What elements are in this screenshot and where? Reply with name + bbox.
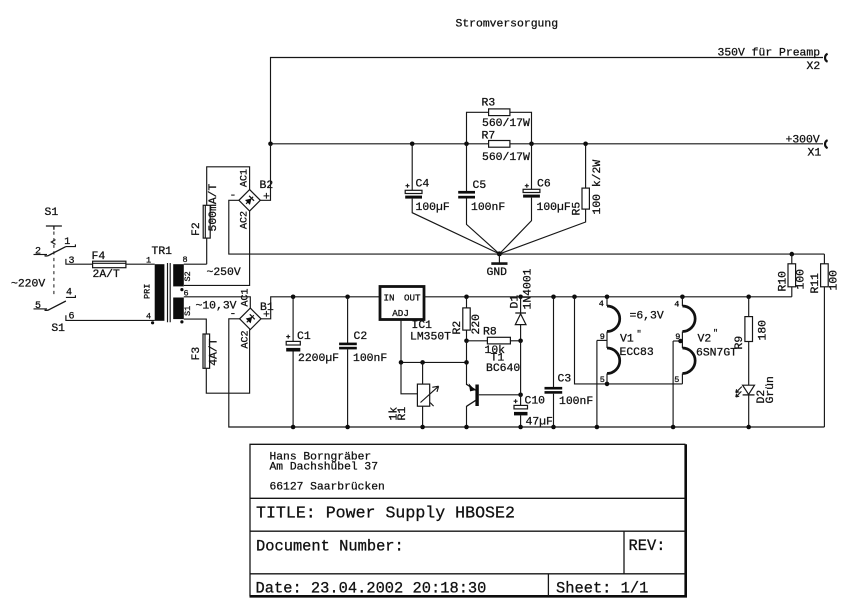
svg-text:100nF: 100nF (559, 396, 593, 408)
wire D1 anode lead (520, 325, 522, 341)
B1 diamond body (240, 308, 261, 329)
junction D1/R8 node (518, 339, 523, 344)
wire C4 bottom lead to GND (412, 199, 499, 254)
wire base node up to R8/D1 node (520, 341, 522, 395)
rectifier bridge B1 (230, 288, 274, 348)
transformer TR1 (143, 246, 251, 334)
transistor T1 BC640 (464, 341, 523, 430)
F2 body (203, 205, 210, 238)
svg-text:Document Number:: Document Number: (256, 537, 404, 555)
resistor R2 (452, 295, 483, 365)
capacitor C6 (499, 144, 570, 254)
resistor R11 (810, 254, 841, 427)
C10 negative plate (514, 412, 528, 416)
svg-text:ECC83: ECC83 (620, 347, 654, 359)
tube heater V2 6SN7GT (671, 295, 737, 430)
svg-text:C5: C5 (473, 180, 487, 192)
svg-text:4: 4 (599, 299, 604, 309)
svg-text:S1: S1 (183, 306, 193, 316)
S1 lower blade (45, 301, 66, 310)
node X2 connector (825, 54, 828, 62)
wire R3 right lead (510, 112, 532, 144)
V1 pin 4 stub (606, 297, 608, 306)
svg-text:ADJ: ADJ (392, 308, 409, 319)
svg-text:Grün: Grün (765, 376, 777, 403)
svg-text:IC1: IC1 (412, 320, 433, 332)
R1 body (417, 384, 429, 406)
capacitor C4 (405, 144, 499, 254)
svg-text:V1: V1 (620, 334, 634, 346)
C4 + mark (406, 184, 410, 188)
svg-text:5: 5 (35, 301, 41, 312)
svg-text:AC2: AC2 (241, 330, 252, 348)
T1 collector diagonal (467, 400, 477, 406)
ground symbol GND (487, 251, 508, 278)
wire C10 top lead (520, 395, 522, 406)
junction C4 top (410, 142, 415, 147)
svg-text:~220V: ~220V (11, 279, 45, 291)
R1 lower tick (430, 403, 433, 407)
C4 negative plate (405, 196, 422, 199)
junction V2 tap bottom (671, 425, 676, 430)
svg-text:560/17W: 560/17W (482, 152, 530, 164)
D2 triangle (743, 385, 755, 394)
R9 body (745, 317, 753, 342)
R5 body (582, 188, 589, 209)
junction ADJ/emitter node (464, 360, 469, 365)
junction heater rail feed (572, 295, 577, 300)
S1 pin 1 lead (66, 244, 76, 246)
svg-text:180: 180 (758, 320, 770, 341)
wire: B1 minus to bottom rail (229, 319, 825, 427)
junction D1 top (518, 295, 523, 300)
svg-text:1: 1 (64, 237, 70, 248)
svg-text:100µF: 100µF (537, 202, 571, 214)
wire F3 bottom to B1 AC2 (206, 330, 249, 394)
junction C3 bottom (551, 425, 556, 430)
svg-text:220: 220 (471, 314, 483, 335)
svg-text:Date: 23.04.2002 20:18:30: Date: 23.04.2002 20:18:30 (256, 580, 487, 598)
svg-text:IN: IN (384, 292, 395, 303)
junction ADJ node (399, 360, 404, 365)
TR1 primary polarity dot (151, 321, 154, 324)
svg-text:S2: S2 (183, 271, 193, 281)
R7 body (489, 141, 510, 148)
svg-text:S1: S1 (45, 323, 66, 335)
F3 inner line (204, 334, 206, 368)
svg-text:R9: R9 (734, 336, 746, 350)
TR1 S2 polarity dot (180, 288, 183, 291)
R8 body (487, 337, 510, 344)
S1 detent mark (51, 240, 55, 245)
T1 emitter arrow (469, 383, 475, 391)
junction C1 top (291, 295, 296, 300)
svg-text:100nF: 100nF (353, 353, 387, 365)
svg-text:1N4001: 1N4001 (523, 268, 535, 309)
potentiometer R1 (389, 360, 439, 429)
C1 positive plate (286, 341, 300, 345)
wire: GND rail (0V reference) (229, 200, 825, 254)
svg-text:4: 4 (66, 288, 72, 299)
V2 pin 9 stub (673, 340, 682, 342)
R10 body (788, 264, 796, 287)
svg-text:PRI: PRI (143, 284, 153, 299)
junction R2 top (464, 295, 469, 300)
svg-text:R1: R1 (397, 407, 409, 421)
svg-text:R7: R7 (482, 130, 496, 142)
wire C4 top lead (411, 144, 413, 191)
junction on +300V rail at B2 output (268, 142, 273, 147)
wire T1 emitter lead (466, 362, 468, 385)
tube heater V1 ECC83 (595, 295, 654, 430)
wire C5 top lead (466, 144, 468, 191)
R11 body (821, 264, 829, 287)
svg-text:47µF: 47µF (526, 417, 554, 429)
svg-text:B2: B2 (260, 180, 274, 192)
svg-text:V2: V2 (698, 334, 712, 346)
resistor R7 (482, 130, 531, 164)
junction R1 top (420, 360, 425, 365)
V2 heater arc top (682, 306, 695, 332)
junction R3/R7/C5 left node (464, 142, 469, 147)
svg-text:100: 100 (829, 270, 841, 291)
C6 positive plate (523, 189, 540, 192)
divider sheet cell (547, 574, 549, 597)
S1 actuator bar (46, 226, 62, 230)
svg-text:R11: R11 (810, 273, 822, 294)
svg-text:6: 6 (69, 312, 75, 323)
svg-text:2A/T: 2A/T (93, 269, 121, 281)
resistor R10 (778, 252, 808, 297)
svg-text:+: + (263, 310, 270, 322)
svg-text:-: - (230, 190, 237, 202)
svg-text:4A/T: 4A/T (209, 338, 221, 366)
svg-text:100nF: 100nF (471, 202, 505, 214)
wire: B2 AC1 loop to F2 top (207, 167, 250, 206)
svg-text:3: 3 (69, 256, 75, 267)
TR1 secondary S2 winding bar (173, 264, 184, 286)
svg-text:9: 9 (675, 332, 680, 342)
C4 positive plate (405, 190, 422, 193)
wire: ADJ node horizontal (401, 361, 467, 363)
V1 pin 9 stub (597, 339, 607, 341)
C3 plate top (545, 387, 563, 390)
C6 negative plate (523, 195, 540, 198)
wire: ADJ to R1 wiper (401, 362, 417, 393)
fuse F4 (92, 251, 155, 281)
wire R10 bottom lead (791, 287, 793, 297)
C5 plate top (458, 191, 475, 194)
C1 + mark (286, 335, 290, 339)
D2 cathode bar (743, 394, 755, 396)
wire D2 bottom lead (748, 395, 750, 427)
wire F4 right lead (126, 263, 155, 265)
svg-text:9: 9 (600, 332, 605, 342)
junction R10 top on GND rail (790, 252, 795, 257)
svg-text:TITLE: Power Supply HBOSE2: TITLE: Power Supply HBOSE2 (256, 504, 515, 523)
svg-text:8: 8 (183, 255, 188, 265)
junction R9 top (746, 295, 751, 300)
junction C2 top (345, 295, 350, 300)
S1 pin 2 lead (34, 254, 48, 256)
svg-text:100 k/2W: 100 k/2W (592, 160, 604, 215)
svg-text:F3: F3 (191, 347, 203, 361)
resistor R8 (467, 327, 521, 357)
V1 heater mid line (606, 332, 608, 349)
wire R9 top lead (748, 297, 750, 317)
V2 pin 5 stub (681, 374, 683, 384)
capacitor C5 (458, 144, 505, 254)
wire: IC1 OUT to heater rail (424, 296, 792, 298)
C5 plate bottom (458, 196, 475, 199)
wire C1 bottom lead (292, 352, 294, 428)
svg-text:REV:: REV: (629, 537, 666, 555)
svg-text:560/17W: 560/17W (482, 118, 530, 130)
svg-text:LM350T: LM350T (410, 331, 451, 343)
LED D2 (736, 376, 777, 429)
wire C3 bottom lead (553, 394, 555, 427)
C6 + mark (525, 184, 529, 188)
svg-text:350V für Preamp: 350V für Preamp (718, 48, 821, 60)
V2 pin 4 stub (681, 297, 683, 306)
svg-text:5: 5 (674, 375, 679, 385)
svg-text:F2: F2 (191, 222, 203, 236)
wire R2 node down to ADJ node (466, 341, 468, 363)
B1 inner diode (244, 313, 256, 325)
svg-text:5: 5 (600, 375, 605, 385)
wire: 350V top rail (271, 58, 824, 144)
wire R2 top lead (466, 297, 468, 308)
B2 diamond body (239, 190, 260, 211)
svg-text:C1: C1 (297, 331, 311, 343)
regulator IC1 LM350T (380, 287, 451, 344)
svg-text:Am Dachshübel 37: Am Dachshübel 37 (270, 462, 378, 474)
svg-text:S1: S1 (45, 207, 59, 219)
divider date row top (250, 573, 686, 575)
junction R3/R7/C6 right node (529, 142, 534, 147)
junction R5 top (583, 142, 588, 147)
V1 heater arc top (607, 306, 620, 332)
svg-text:R2: R2 (452, 321, 464, 335)
C10 + mark (514, 399, 518, 403)
svg-text:4: 4 (146, 312, 151, 322)
svg-text:X2: X2 (807, 61, 821, 73)
wire C6 top lead (531, 144, 533, 190)
node X1 connector (825, 140, 828, 148)
capacitor C1 (286, 295, 339, 430)
junction T1 collector bottom (464, 425, 469, 430)
resistor R5 (499, 144, 604, 254)
wire R5 bottom lead to GND (499, 209, 585, 254)
svg-text:": " (637, 329, 642, 339)
F4 body (93, 261, 126, 268)
junction V1 pin 4 (605, 295, 610, 300)
resistor R9 (734, 295, 770, 386)
svg-text:500mA/T: 500mA/T (208, 183, 220, 231)
switch S1 (mains DPDT) (34, 207, 155, 335)
wire pin 8 to F2 (184, 263, 207, 265)
R3 body (489, 109, 510, 116)
C10 positive plate (514, 405, 528, 409)
F2 inner line (204, 205, 206, 238)
svg-text:66127 Saarbrücken: 66127 Saarbrücken (270, 481, 385, 493)
wire V2 pin 9 down to bottom rail (672, 341, 674, 427)
svg-text:R3: R3 (482, 98, 496, 110)
D1 cathode bar (515, 312, 526, 314)
svg-text:AC1: AC1 (241, 288, 252, 306)
svg-text:+300V: +300V (786, 134, 820, 146)
wire F2 bottom lead (206, 238, 208, 264)
svg-text:C10: C10 (525, 396, 546, 408)
wire down and across to pins 5 (575, 297, 683, 384)
T1 emitter diagonal (467, 384, 477, 390)
junction C1 bottom (291, 425, 296, 430)
junction V2 pin 4 (680, 295, 685, 300)
wire R11 top lead from GND rail (823, 254, 825, 264)
B2 inner diode (244, 194, 256, 206)
svg-text:C6: C6 (537, 179, 551, 191)
diode D1 1N4001 (510, 268, 535, 343)
C2 plate bottom (339, 347, 357, 350)
wire: +300V rail right segment (510, 143, 823, 145)
C1 negative plate (286, 348, 300, 352)
svg-text:2: 2 (35, 247, 41, 258)
GND bar (491, 262, 507, 265)
svg-text:D1: D1 (510, 295, 522, 309)
svg-text:~250V: ~250V (207, 267, 241, 279)
svg-text:AC1: AC1 (240, 169, 251, 187)
S1 pin 5 lead (34, 308, 48, 310)
wire R1 top lead (422, 362, 424, 384)
wire V1 pin 9 down to bottom rail (596, 340, 598, 427)
junction V1 pin 5 (605, 382, 610, 387)
F3 body (203, 334, 210, 368)
S1 pin 4 lead (66, 295, 76, 297)
TR1 core lines (168, 263, 171, 322)
wire S1 winding bottom to F3 (184, 319, 207, 334)
wire C5 bottom lead to GND (467, 199, 500, 254)
capacitor C3 (545, 295, 594, 430)
wire R10 top lead (791, 254, 793, 264)
wire C2 bottom lead (347, 349, 349, 427)
wire R8 left lead (467, 340, 488, 342)
svg-text:Stromversorgung: Stromversorgung (456, 18, 559, 30)
capacitor C10 (514, 395, 553, 430)
wire C3 top lead (553, 297, 555, 387)
svg-text:R5: R5 (572, 202, 584, 216)
junction V2 pin 9 (678, 339, 683, 344)
divider title row top (250, 497, 686, 499)
R2 body (463, 308, 470, 330)
wire: +300V rail left segment (271, 143, 489, 145)
D2 emission arrows (736, 387, 742, 393)
svg-text:C2: C2 (354, 331, 368, 343)
wire C10 bottom lead (520, 415, 522, 427)
S1 pin 6 lead (66, 315, 155, 320)
svg-text:": " (713, 328, 718, 338)
resistor R3 (467, 98, 532, 144)
V2 heater arc bottom (682, 348, 695, 374)
S1 pin 3 lead (66, 259, 93, 264)
fuse F3 (191, 330, 250, 394)
wire: IC1 ADJ down (400, 320, 402, 363)
svg-text:OUT: OUT (404, 292, 421, 303)
svg-text:C4: C4 (416, 179, 430, 191)
wire T1 collector lead (466, 406, 468, 427)
junction V1 tap bottom (595, 425, 600, 430)
divider REV cell (623, 531, 625, 574)
V2 heater mid line (681, 332, 683, 349)
wire: B2 plus output up to rails (260, 144, 270, 201)
wire R11 bottom lead to bottom rail (823, 287, 825, 427)
TR1 secondary S1 winding bar (173, 298, 184, 320)
capacitor C2 (339, 295, 387, 430)
R1 wiper arrow (421, 386, 439, 402)
S1 upper blade (45, 247, 66, 256)
svg-text:Sheet: 1/1: Sheet: 1/1 (556, 580, 648, 598)
GND stub (498, 254, 500, 263)
svg-text:C3: C3 (558, 374, 572, 386)
S1 linkage dashed line (53, 232, 55, 298)
junction C2 bottom (345, 425, 350, 430)
junction R1 bottom (420, 425, 425, 430)
svg-text:GND: GND (487, 267, 508, 279)
title block frame (250, 444, 688, 597)
wire pin 6 to B1 AC1 (184, 297, 251, 308)
wire R9 bottom lead (748, 342, 750, 386)
svg-text:TR1: TR1 (152, 246, 173, 258)
outer frame thick bottom (250, 595, 688, 598)
GND junction dot (497, 251, 502, 256)
wire: heater feed to tube pins 5 (572, 295, 682, 384)
D1 triangle (515, 314, 526, 325)
TR1 S1 polarity dot (180, 320, 183, 323)
C3 plate bottom (545, 391, 563, 394)
outer frame (250, 444, 686, 596)
svg-text:R8: R8 (483, 327, 497, 339)
divider document row top (250, 530, 686, 532)
svg-text:BC640: BC640 (486, 363, 520, 375)
svg-text:4: 4 (674, 299, 679, 309)
TR1 primary winding bar (155, 264, 165, 321)
V1 pin 5 stub (606, 374, 608, 384)
svg-text:=6,3V: =6,3V (630, 311, 664, 323)
junction D2 bottom (746, 425, 751, 430)
wire: B2 AC2 down to S2 winding bottom (184, 211, 250, 285)
rectifier bridge B2 (230, 169, 274, 229)
svg-text:100: 100 (796, 269, 808, 290)
svg-text:F4: F4 (92, 251, 106, 263)
C2 plate top (339, 343, 357, 346)
junction C3 top (551, 295, 556, 300)
junction C10 bottom (518, 425, 523, 430)
wire C2 top lead (347, 297, 349, 343)
wire R8 right lead (510, 340, 520, 342)
svg-text:AC2: AC2 (240, 211, 251, 229)
fuse F2 (191, 183, 220, 264)
wire C6 bottom lead to GND (499, 198, 531, 254)
outer frame thick right (684, 444, 687, 597)
wire R1 bottom lead (422, 406, 424, 427)
wire R3 left lead (467, 112, 489, 144)
svg-text:100µF: 100µF (416, 202, 450, 214)
svg-text:1: 1 (146, 255, 151, 265)
svg-text:R10: R10 (778, 271, 790, 292)
svg-text:+: + (263, 192, 270, 204)
T1 base bar (475, 385, 478, 407)
wire R5 top lead (585, 144, 587, 188)
wire: B1 plus up to LV rail (261, 297, 380, 319)
